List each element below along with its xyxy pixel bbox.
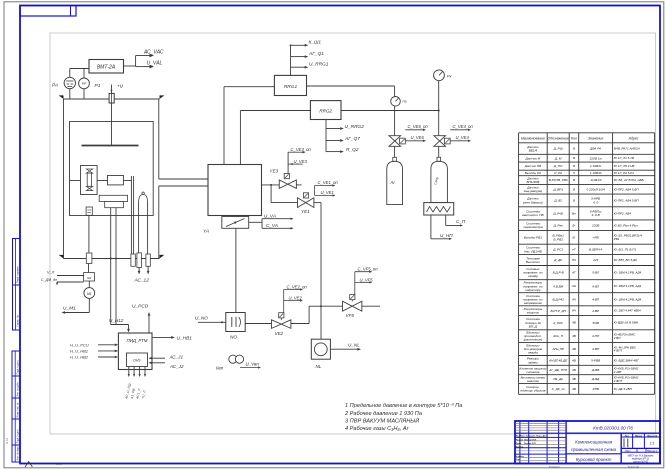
svg-text:4-ПП: 4-ПП bbox=[592, 334, 600, 338]
svg-text:U_Vвп: U_Vвп bbox=[246, 361, 260, 366]
svg-text:В_РВ2: В_РВ2 bbox=[553, 237, 563, 241]
svg-text:С_VЕ2_оп: С_VЕ2_оп bbox=[287, 284, 308, 289]
svg-text:NО: NО bbox=[230, 334, 237, 339]
svg-text:Н_U_НВ2: Н_U_НВ2 bbox=[70, 355, 89, 360]
svg-text:220В: 220В bbox=[591, 223, 599, 227]
svg-text:Д_РШ: Д_РШ bbox=[553, 147, 563, 151]
svg-text:Н_U_РСU: Н_U_РСU bbox=[70, 342, 89, 347]
svg-text:U_Н12: U_Н12 bbox=[109, 318, 124, 323]
svg-text:NL: NL bbox=[316, 364, 322, 369]
svg-text:Д_РС1: Д_РС1 bbox=[552, 247, 563, 251]
svg-text:Ю-ПР2_АВ4: Ю-ПР2_АВ4 bbox=[614, 211, 632, 215]
svg-text:В: В bbox=[573, 147, 575, 151]
svg-text:Выходы РВ1: Выходы РВ1 bbox=[524, 235, 543, 239]
svg-text:В,0ВП4 4: В,0ВП4 4 bbox=[589, 247, 603, 251]
svg-text:Взам. инв. №: Взам. инв. № bbox=[17, 402, 20, 417]
svg-text:Д_В2: Д_В2 bbox=[553, 199, 562, 203]
svg-text:4В: 4В bbox=[572, 368, 576, 372]
svg-text:Ю: В55_ВС 5.ДК: Ю: В55_ВС 5.ДК bbox=[614, 258, 637, 262]
svg-text:Пров. Петров П.П.: Пров. Петров П.П. bbox=[516, 443, 537, 445]
svg-text:защиты: защиты bbox=[526, 311, 540, 315]
svg-text:термометра: термометра bbox=[523, 225, 543, 229]
svg-text:Нас. РД1/4В: Нас. РД1/4В bbox=[524, 249, 542, 253]
svg-text:Наименование: Наименование bbox=[521, 137, 545, 141]
svg-text:2х5: 2х5 bbox=[592, 258, 598, 262]
svg-text:ВП1/4ПВ: ВП1/4ПВ bbox=[526, 180, 539, 184]
svg-text:5/4В: 5/4В bbox=[592, 321, 598, 325]
svg-text:Ю 1Л_РА 5.Р1: Ю 1Л_РА 5.Р1 bbox=[614, 171, 634, 175]
svg-text:Ю: 1ВМ 4,1РВ_АД4: Ю: 1ВМ 4,1РВ_АД4 bbox=[614, 271, 642, 275]
svg-text:Vвп: Vвп bbox=[216, 365, 224, 370]
svg-text:Ю: 1ВМ 4,1РВ_АД4: Ю: 1ВМ 4,1РВ_АД4 bbox=[614, 284, 642, 288]
svg-text:шкафу: шкафу bbox=[528, 274, 538, 278]
svg-text:Ю: ВДС,ВМ/4 4ВТ: Ю: ВДС,ВМ/4 4ВТ bbox=[614, 358, 640, 362]
svg-text:АС_VАС: АС_VАС bbox=[143, 49, 164, 55]
svg-text:АС_12: АС_12 bbox=[134, 278, 150, 284]
svg-text:Курсовой проект: Курсовой проект bbox=[576, 457, 612, 462]
svg-text:КтВ.020301.00 П6: КтВ.020301.00 П6 bbox=[593, 426, 633, 431]
svg-text:К_Ш1: К_Ш1 bbox=[309, 39, 322, 45]
svg-text:5-ВЛ: 5-ВЛ bbox=[592, 271, 600, 275]
svg-text:V_Л: V_Л bbox=[47, 271, 55, 275]
svg-text:U_VЕ3: U_VЕ3 bbox=[294, 159, 308, 164]
svg-text:Ю: В/1_П1 В,П1: Ю: В/1_П1 В,П1 bbox=[614, 247, 637, 251]
svg-text:Обозначение: Обозначение bbox=[547, 137, 568, 141]
svg-text:1 10В3д: 1 10В3д bbox=[590, 171, 602, 175]
svg-text:YЕ1: YЕ1 bbox=[301, 209, 310, 214]
svg-text:АН,ВТ,4Б,ДЕ: АН,ВТ,4Б,ДЕ bbox=[548, 358, 568, 362]
svg-text:Ю: ВЗ_АГ В Ю2_АВБ: Ю: ВЗ_АГ В Ю2_АВБ bbox=[614, 178, 644, 182]
svg-text:4В: 4В bbox=[572, 334, 576, 338]
svg-text:К_РАС: К_РАС bbox=[553, 321, 563, 325]
svg-text:4-ВП: 4-ВП bbox=[592, 297, 600, 301]
svg-text:U_VЕ2: U_VЕ2 bbox=[289, 295, 303, 300]
svg-text:RRG2: RRG2 bbox=[319, 109, 332, 114]
svg-text:U_VА: U_VА bbox=[264, 213, 276, 218]
svg-text:4..0: 4..0 bbox=[593, 200, 598, 204]
svg-text:4 2ВТ: 4 2ВТ bbox=[614, 370, 623, 374]
svg-text:Р_РА: Р_РА bbox=[554, 171, 562, 175]
svg-text:С_VЕ1_оп: С_VЕ1_оп bbox=[318, 180, 339, 185]
svg-text:4В: 4В bbox=[572, 387, 576, 391]
svg-text:В,Д,Р-В: В,Д,Р-В bbox=[553, 271, 564, 275]
svg-text:4.В,ВМ: 4.В,ВМ bbox=[553, 284, 564, 288]
svg-text:АСн_П: АСн_П bbox=[552, 334, 564, 338]
svg-text:РВ1: РВ1 bbox=[614, 237, 620, 241]
svg-text:Адрес: Адрес bbox=[628, 137, 639, 141]
svg-text:РА: РА bbox=[52, 83, 58, 89]
svg-text:Утв.: Утв. bbox=[516, 459, 521, 461]
svg-text:ПИД_РТМ: ПИД_РТМ bbox=[127, 338, 148, 343]
svg-text:Компенсационная: Компенсационная bbox=[575, 440, 613, 445]
svg-text:Т.контр.: Т.контр. bbox=[516, 446, 524, 448]
svg-text:Высокого: Высокого bbox=[526, 260, 540, 264]
svg-text:С_VЕ3_оп: С_VЕ3_оп bbox=[291, 147, 312, 152]
svg-text:реле (давыш): реле (давыш) bbox=[522, 200, 543, 204]
svg-text:группа М3-42: группа М3-42 bbox=[633, 460, 649, 463]
svg-text:2 Рабочее давление 1 930 Па: 2 Рабочее давление 1 930 Па bbox=[344, 411, 422, 417]
svg-text:4-ВП: 4-ВП bbox=[592, 347, 600, 351]
svg-text:Ю-ВД5-2А В 5ВМ: Ю-ВД5-2А В 5ВМ bbox=[614, 321, 639, 325]
svg-text:U_VЕ4: U_VЕ4 bbox=[456, 135, 470, 140]
svg-text:Датчик НВ: Датчик НВ bbox=[524, 164, 541, 168]
svg-text:U_VАL: U_VАL bbox=[147, 60, 163, 66]
svg-text:4В: 4В bbox=[572, 347, 576, 351]
svg-text:АГ_Q7: АГ_Q7 bbox=[344, 136, 360, 142]
svg-text:+U: +U bbox=[117, 84, 124, 89]
svg-text:3 ПВР ВАКУУМ МАСЛЯНЫЙ: 3 ПВР ВАКУУМ МАСЛЯНЫЙ bbox=[345, 416, 419, 424]
svg-text:ВП_Д: ВП_Д bbox=[529, 324, 538, 328]
svg-text:единицы сбросов: единицы сбросов bbox=[520, 389, 545, 393]
svg-text:U_VЕ6: U_VЕ6 bbox=[411, 135, 425, 140]
svg-text:Копировал: Копировал bbox=[549, 467, 561, 469]
svg-text:Д-ВВ: Д-ВВ bbox=[591, 368, 599, 372]
svg-text:сигналов: сигналов bbox=[526, 370, 540, 374]
svg-text:ВМТ-2А: ВМТ-2А bbox=[97, 65, 116, 71]
svg-text:U_RRG2: U_RRG2 bbox=[345, 124, 365, 130]
svg-text:4В: 4В bbox=[572, 321, 576, 325]
svg-text:РЕ_Др: РЕ_Др bbox=[553, 377, 563, 381]
svg-text:Датчик М: Датчик М bbox=[525, 156, 541, 160]
svg-text:В,Д,Р42: В,Д,Р42 bbox=[552, 297, 564, 301]
svg-text:С_ДМ_дп: С_ДМ_дп bbox=[41, 278, 57, 282]
svg-text:Д_Рнк: Д_Рнк bbox=[553, 223, 564, 227]
svg-text:Лит.: Лит. bbox=[625, 435, 630, 437]
svg-text:Ю 1Л_Лб 4 НВ: Ю 1Л_Лб 4 НВ bbox=[614, 164, 635, 168]
svg-text:4 ВПТ: 4 ВПТ bbox=[614, 379, 624, 383]
svg-text:АС_J1: АС_J1 bbox=[169, 354, 184, 359]
svg-text:Подп. и дата: Подп. и дата bbox=[17, 429, 20, 444]
svg-text:напряжению: напряжению bbox=[524, 301, 543, 305]
svg-text:Ю: ДЕ 5.2ВП: Ю: ДЕ 5.2ВП bbox=[614, 387, 633, 391]
svg-text:220В 1м: 220В 1м bbox=[589, 156, 603, 160]
svg-text:Ю: 1ВМ 4,1РВ_АД4: Ю: 1ВМ 4,1РВ_АД4 bbox=[614, 297, 642, 301]
svg-text:АПн_5Р: АПн_5Р bbox=[551, 347, 564, 351]
svg-text:Ф4В_РА71 АИ5/2А: Ф4В_РА71 АИ5/2А bbox=[614, 147, 640, 151]
svg-text:вентилят. ПВ: вентилят. ПВ bbox=[522, 213, 543, 217]
svg-text:В: В bbox=[573, 198, 575, 202]
svg-text:Формат А1: Формат А1 bbox=[628, 466, 640, 469]
svg-text:АС_J2: АС_J2 bbox=[169, 364, 184, 369]
svg-text:4 ВПТ: 4 ВПТ bbox=[614, 349, 624, 353]
svg-text:Д_РчБ: Д_РчБ bbox=[552, 211, 563, 215]
svg-text:АГ_ДЕ_ПТП: АГ_ДЕ_ПТП bbox=[548, 368, 568, 372]
svg-text:2/5В: 2/5В bbox=[591, 387, 598, 391]
svg-text:U_РСD: U_РСD bbox=[132, 304, 149, 310]
svg-text:Ю-ПР2_АВ4 5.ВП: Ю-ПР2_АВ4 5.ВП bbox=[614, 187, 640, 191]
svg-text:Инв. № подл: Инв. № подл bbox=[17, 446, 20, 461]
svg-text:VF5: VF5 bbox=[346, 313, 355, 318]
svg-text:Перв. примен.: Перв. примен. bbox=[15, 265, 19, 283]
svg-text:5-РВВ: 5-РВВ bbox=[591, 358, 600, 362]
svg-text:В: В bbox=[573, 187, 575, 191]
svg-text:ВБ1/4: ВБ1/4 bbox=[529, 148, 538, 152]
svg-text:nг: nг bbox=[403, 99, 407, 104]
svg-text:В-: В- bbox=[572, 223, 575, 227]
svg-text:В: В bbox=[573, 156, 575, 160]
svg-text:завода: завода bbox=[527, 351, 538, 355]
svg-text:4..0,В: 4..0,В bbox=[592, 213, 600, 217]
svg-text:ДВА РА: ДВА РА bbox=[589, 147, 601, 151]
svg-text:индуктору: индуктору bbox=[525, 288, 541, 292]
svg-text:U_RRG1: U_RRG1 bbox=[309, 61, 329, 67]
svg-text:С_VF5_оп: С_VF5_оп bbox=[358, 267, 379, 272]
svg-text:АГ_Q1: АГ_Q1 bbox=[308, 51, 324, 57]
svg-text:R_Q2: R_Q2 bbox=[346, 147, 359, 153]
svg-text:Н.контр.: Н.контр. bbox=[516, 456, 525, 458]
svg-text:Кол: Кол bbox=[571, 137, 577, 141]
svg-text:1 10В3г: 1 10В3г bbox=[590, 164, 602, 168]
svg-text:4 Рабочие газы С₃Н₈, Аr: 4 Рабочие газы С₃Н₈, Аr bbox=[345, 426, 410, 432]
svg-text:Ю ВЗ_РЬп 4 РЬп: Ю ВЗ_РЬп 4 РЬп bbox=[614, 223, 638, 227]
svg-text:RRG1: RRG1 bbox=[284, 84, 298, 90]
svg-text:4В: 4В bbox=[572, 377, 576, 381]
svg-text:С_VА: С_VА bbox=[266, 223, 278, 228]
svg-text:YA: YA bbox=[203, 229, 209, 235]
svg-text:2-ВР: 2-ВР bbox=[591, 309, 600, 313]
svg-text:Изм Лист № докум. Подп. Дата: Изм Лист № докум. Подп. Дата bbox=[516, 435, 549, 438]
svg-text:(расчетные): (расчетные) bbox=[524, 338, 543, 342]
svg-text:Справ. №: Справ. № bbox=[15, 315, 19, 327]
svg-text:Вн: Вн bbox=[572, 211, 576, 215]
svg-text:9-ВЛ: 9-ВЛ bbox=[592, 284, 600, 288]
svg-text:YЕ3: YЕ3 bbox=[270, 168, 279, 173]
svg-text:Д-ВД: Д-ВД bbox=[591, 377, 600, 381]
svg-text:Выходы РА: Выходы РА bbox=[525, 171, 541, 175]
svg-text:промышленная схема: промышленная схема bbox=[571, 447, 617, 452]
svg-text:С_П: С_П bbox=[456, 219, 466, 224]
svg-text:U_VF5: U_VF5 bbox=[360, 277, 374, 282]
svg-text:U_НП: U_НП bbox=[440, 233, 453, 238]
svg-text:Н_U_НВ1: Н_U_НВ1 bbox=[70, 348, 88, 353]
svg-text:В: В bbox=[573, 178, 575, 182]
svg-text:Д_М: Д_М bbox=[554, 156, 562, 160]
svg-text:С_VЕ4_оп: С_VЕ4_оп bbox=[453, 124, 474, 129]
svg-text:Разраб. Иванов И.И.: Разраб. Иванов И.И. bbox=[516, 439, 537, 442]
svg-text:U_НВ1: U_НВ1 bbox=[177, 335, 193, 341]
svg-text:В: В bbox=[573, 164, 575, 168]
svg-text:Листов 1: Листов 1 bbox=[647, 451, 657, 453]
svg-text:В,Р0,5В_РВд: В,Р0,5В_РВд bbox=[549, 178, 568, 182]
svg-text:Ю-ПР2_АВ4 5.ВП: Ю-ПР2_АВ4 5.ВП bbox=[614, 198, 640, 202]
svg-text:U_NL: U_NL bbox=[348, 342, 360, 347]
svg-text:U_VЕ1: U_VЕ1 bbox=[321, 190, 334, 195]
svg-text:защ.(вакуум): защ.(вакуум) bbox=[523, 189, 543, 193]
svg-text:4В: 4В bbox=[572, 358, 576, 362]
svg-text:VЕ2: VЕ2 bbox=[275, 331, 284, 336]
svg-text:1:1: 1:1 bbox=[650, 442, 655, 446]
svg-text:Р1: Р1 bbox=[95, 83, 101, 89]
svg-text:Ф.А1: Ф.А1 bbox=[5, 437, 9, 444]
svg-text:-0,2В1/4: -0,2В1/4 bbox=[590, 178, 602, 182]
svg-text:Масштаб: Масштаб bbox=[647, 434, 657, 437]
svg-text:С_ДК_оп: С_ДК_оп bbox=[552, 387, 565, 391]
svg-text:анализа: анализа bbox=[527, 379, 539, 383]
svg-text:В,РТ,Р_ДП: В,РТ,Р_ДП bbox=[550, 309, 566, 313]
svg-text:DНS: DНS bbox=[133, 359, 141, 363]
svg-text:Аr: Аr bbox=[390, 180, 396, 185]
svg-text:задачи: задачи bbox=[527, 360, 538, 364]
svg-text:РР: РР bbox=[82, 82, 87, 86]
svg-text:Инв. № дубл.: Инв. № дубл. bbox=[17, 381, 20, 396]
svg-text:U_NО: U_NО bbox=[195, 315, 208, 320]
svg-text:АН: АН bbox=[571, 284, 577, 288]
svg-text:0 220кП 10/4: 0 220кП 10/4 bbox=[586, 187, 605, 191]
svg-text:4 ВП: 4 ВП bbox=[614, 336, 622, 340]
svg-text:+РВ: +РВ bbox=[593, 235, 599, 239]
svg-text:В-: В- bbox=[572, 235, 575, 239]
svg-text:Д_ДК: Д_ДК bbox=[553, 258, 562, 262]
svg-text:Д_НО: Д_НО bbox=[553, 164, 563, 168]
svg-text:Ю 1Л_Л1 5.1В: Ю 1Л_Л1 5.1В bbox=[614, 156, 634, 160]
svg-text:С_VЕ6_оп: С_VЕ6_оп bbox=[408, 124, 429, 129]
svg-text:1 Предельное давление в контур: 1 Предельное давление в контуре 5*10⁻³ П… bbox=[345, 403, 462, 409]
svg-text:М1: М1 bbox=[87, 292, 92, 296]
svg-text:Подп. и дата: Подп. и дата bbox=[17, 360, 20, 375]
svg-text:Д_ВР1: Д_ВР1 bbox=[552, 187, 563, 191]
svg-text:Ю: 2ВП 4,44Т 4В04: Ю: 2ВП 4,44Т 4В04 bbox=[614, 309, 641, 313]
svg-text:U_М1: U_М1 bbox=[63, 306, 76, 312]
svg-text:Масса: Масса bbox=[635, 435, 643, 437]
svg-text:Значение: Значение bbox=[588, 137, 603, 141]
